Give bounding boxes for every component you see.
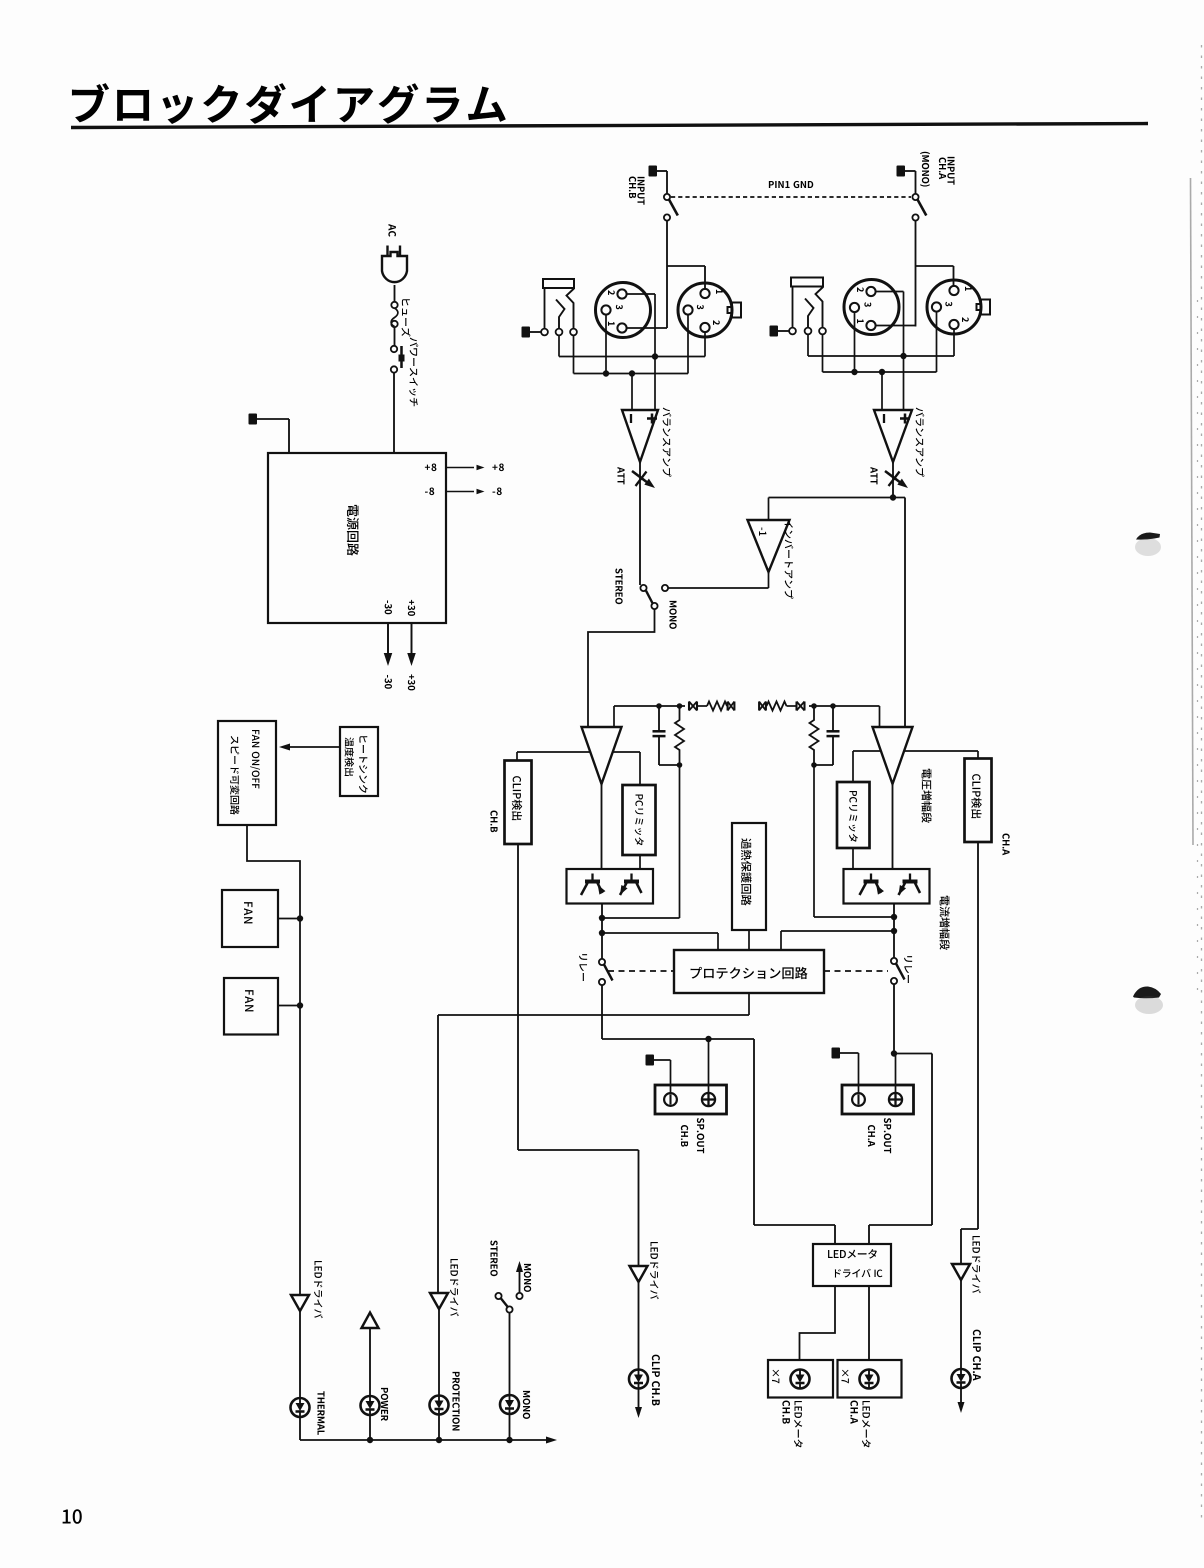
wire clip CH.B down <box>518 844 639 1266</box>
feedback shunt resistor CH.B <box>659 706 684 768</box>
XLR male CH.B <box>678 283 741 337</box>
feedback resistor CH.A <box>767 702 787 711</box>
XLR female CH.A pin2 <box>857 287 876 296</box>
balance amp CH.B <box>622 410 658 462</box>
pc limiter tap CH.B <box>613 752 640 785</box>
FAN 2 label <box>245 990 253 1011</box>
XLR female CH.B pin3 <box>601 305 622 315</box>
wire power bus <box>369 1415 371 1440</box>
clip diode pair CH.B <box>689 702 697 711</box>
scan blob 2 <box>1133 986 1163 1014</box>
clip tap CH.B <box>517 752 591 761</box>
heatsink box <box>340 727 378 796</box>
wire amp out CH.A <box>890 462 896 501</box>
-8 arrow <box>445 489 485 495</box>
+8 label outer <box>492 463 504 471</box>
wire CH.A <box>787 705 797 707</box>
XLR female CH.B pin2 <box>608 289 627 298</box>
SP.OUT box CH.B <box>655 1085 727 1114</box>
invert amp label <box>785 520 794 599</box>
feedback down wire CH.B <box>602 765 680 918</box>
ground psu <box>249 414 290 453</box>
wire male pin2 CH.A <box>953 329 955 356</box>
wire out CH.A <box>891 904 897 959</box>
transistor pair CH.B <box>581 874 642 896</box>
thermal protect box <box>732 823 766 930</box>
voltage amp CH.B <box>582 727 622 784</box>
wire protection out <box>438 993 749 1293</box>
wire fan control down <box>247 825 303 1295</box>
relay CH.B <box>599 959 613 985</box>
feedback down wire CH.A <box>814 765 894 917</box>
wire male pin3 CH.B <box>687 315 689 374</box>
wire bus1 CH.B <box>559 336 705 360</box>
ground spout CH.B <box>646 1055 671 1093</box>
cap end symbol CH.B <box>728 702 735 711</box>
wire fan1 <box>278 918 300 920</box>
CLIP CH.A label <box>973 1330 981 1381</box>
x7 label CH.A <box>842 1370 849 1383</box>
wire clip CH.A down <box>961 842 978 1264</box>
jack tip contact CH.A <box>816 287 826 334</box>
input CH.A label <box>920 152 954 187</box>
+8 label inner <box>425 463 437 471</box>
relay dashed CH.B <box>608 970 674 972</box>
wire relay to spout CH.A <box>891 984 932 1057</box>
wire to meter driver right <box>869 1054 932 1245</box>
wire bus2 CH.A <box>823 335 937 376</box>
wire driver to meter CH.A <box>868 1286 870 1360</box>
CH.A label <box>1002 834 1009 856</box>
LED driver triangle thermal <box>291 1295 309 1311</box>
heatsink label <box>345 736 368 793</box>
relay CH.A <box>891 958 905 984</box>
CLIP detect box CH.A <box>965 759 992 843</box>
wire to amp plus CH.B <box>654 357 656 411</box>
LED driver triangle protection <box>430 1293 448 1309</box>
jack ring contact CH.B <box>556 300 565 336</box>
LED meter CH.B label <box>782 1401 802 1448</box>
spout plus terminal CH.A <box>889 1093 902 1106</box>
attenuator CH.A <box>885 471 908 488</box>
wire switch to psu <box>393 373 395 453</box>
LED meter box CH.A <box>838 1360 902 1398</box>
wire female pin1 CH.A <box>876 325 916 327</box>
spout plus terminal CH.B <box>702 1093 715 1106</box>
feedback net CH.A <box>809 703 836 709</box>
FAN box 1 <box>222 890 278 947</box>
stereo-mono switch bottom <box>495 1293 522 1313</box>
XLR female CH.A pin1 <box>857 319 876 330</box>
power up arrow <box>362 1313 379 1329</box>
current stage label <box>940 896 950 950</box>
power switch label <box>409 338 418 407</box>
wire invert in <box>769 498 894 521</box>
PC limiter box CH.B <box>623 785 656 855</box>
power switch <box>391 346 405 373</box>
CLIP detect label CH.A <box>971 774 981 818</box>
POWER label <box>381 1388 388 1421</box>
CLIP detect label CH.B <box>512 776 522 820</box>
pc limiter tap CH.A <box>853 751 881 782</box>
scan blob 1 <box>1135 533 1161 557</box>
MONO label mid <box>669 601 676 629</box>
LED meter driver label <box>828 1249 882 1277</box>
attenuator CH.B <box>632 471 655 488</box>
page number 10 <box>63 1509 82 1524</box>
wire female pin3 CH.B <box>605 315 607 374</box>
wire female pin1 CH.B <box>627 327 667 329</box>
MONO arrow <box>516 1261 523 1293</box>
wire to voltage amp CH.A <box>893 498 905 728</box>
jack ring contact CH.A <box>805 299 814 335</box>
wire CH.A clip led <box>960 1280 962 1369</box>
ground jack CH.A <box>770 326 790 337</box>
wire CH.B clip led <box>638 1282 640 1370</box>
wire protection led <box>438 1309 440 1396</box>
LED meter box CH.B <box>768 1360 833 1398</box>
CLIP detect box CH.B <box>505 761 532 845</box>
PC limiter label CH.A <box>849 791 858 842</box>
XLR female CH.B pin1 <box>608 322 627 333</box>
+30 label inner <box>408 600 415 616</box>
wire male pin2 CH.B <box>704 332 706 356</box>
fuse label <box>401 299 410 336</box>
thermal protect label <box>741 838 752 905</box>
input CH.B label <box>629 177 645 205</box>
wire mono led <box>509 1313 511 1395</box>
psu box <box>268 453 446 623</box>
current amp box CH.A <box>844 869 930 904</box>
transistor pair CH.A <box>860 874 921 896</box>
LED clip CH.A <box>952 1369 971 1388</box>
ground jack CH.B <box>522 327 542 338</box>
PC limiter box CH.A <box>837 782 870 848</box>
fuse <box>391 302 398 346</box>
LED driver triangle CH.A <box>952 1264 970 1280</box>
wire thermal to protection <box>748 930 750 950</box>
wire female pin2 CH.A <box>876 292 904 357</box>
protection label <box>691 967 808 979</box>
relay label CH.B <box>579 954 587 981</box>
wire bus1 CH.A <box>808 335 954 360</box>
-8 label outer <box>492 487 501 495</box>
bottom bus <box>300 1437 557 1444</box>
psu label <box>347 505 359 556</box>
wire spout plus CH.A <box>895 1055 897 1092</box>
voltage amp CH.A <box>873 727 913 784</box>
title underline <box>71 124 1148 128</box>
XLR male CH.A <box>927 280 990 334</box>
-30 label outer <box>385 675 392 689</box>
XLR male CH.B pin1 <box>700 289 722 298</box>
wire to amp minus CH.A <box>881 372 883 410</box>
XLR female CH.A <box>844 280 899 335</box>
feedback resistor CH.B <box>707 702 727 711</box>
wire male pin3 CH.A <box>936 312 938 372</box>
protection box <box>674 950 824 993</box>
LED power <box>361 1396 380 1415</box>
XLR male CH.A pin1 <box>949 286 971 295</box>
SP.OUT CH.B label <box>681 1118 704 1153</box>
feedback cap CH.B <box>653 706 666 765</box>
wire pc to current amp CH.B <box>639 855 641 869</box>
jack tip contact CH.B <box>567 289 577 336</box>
relay label CH.A <box>904 956 912 983</box>
input switch CH.A <box>912 194 926 221</box>
wire protection bus <box>438 1415 440 1441</box>
XLR male CH.A pin2 <box>949 317 968 329</box>
feedback shunt resistor CH.A <box>810 706 834 768</box>
CH.B label <box>490 811 497 833</box>
input switch CH.B <box>664 194 678 221</box>
ATT label CH.A <box>871 467 878 484</box>
feedback cap CH.A <box>827 706 840 765</box>
LED meter CH.A label <box>850 1401 870 1448</box>
wire fan2 <box>278 1005 300 1007</box>
wire apex CH.B <box>601 784 603 869</box>
wire switch down CH.A <box>915 221 917 327</box>
SP.OUT CH.A label <box>868 1118 891 1153</box>
XLR female CH.A pin3 <box>850 302 871 312</box>
wire thermal bus <box>299 1417 301 1440</box>
LED mono <box>500 1395 519 1414</box>
LED driver thermal label <box>314 1261 323 1318</box>
wire protection in CH.A <box>781 931 894 950</box>
PC limiter label CH.B <box>635 794 644 845</box>
PIN1 GND label <box>769 181 813 188</box>
arrow clip CH.B <box>635 1389 642 1419</box>
ground input CH.B <box>649 166 668 195</box>
wire spout plus CH.B <box>708 1039 710 1092</box>
XLR male CH.B pin2 <box>700 320 719 332</box>
clip diode pair CH.A <box>797 702 805 711</box>
jack sleeve contact CH.B <box>541 329 548 336</box>
wire relay to spout CH.B <box>602 985 754 1042</box>
LED driver triangle CH.B <box>630 1266 648 1282</box>
wire female pin3 CH.A <box>854 312 856 372</box>
FAN 1 label <box>244 902 252 923</box>
ground spout CH.A <box>832 1048 859 1093</box>
wire to meter driver left <box>754 1039 835 1244</box>
MONO label top <box>524 1264 531 1292</box>
LED CH.B meter <box>791 1370 810 1389</box>
current amp box CH.B <box>567 869 654 904</box>
wire apex CH.A <box>892 784 894 869</box>
wire out CH.B <box>599 904 605 960</box>
balance amp CH.B label <box>663 408 672 477</box>
ATT label CH.B <box>618 467 625 484</box>
invert amp <box>748 520 790 572</box>
voltage stage label <box>922 769 932 823</box>
wire CH.B <box>697 705 707 707</box>
feedback net CH.B <box>656 703 685 709</box>
FAN control label <box>230 730 260 815</box>
clip tap CH.A <box>904 751 978 759</box>
STEREO label bottom <box>490 1240 497 1276</box>
wire bus2 CH.B <box>574 336 689 377</box>
+30 label outer <box>408 674 415 690</box>
cap end symbol CH.A <box>759 702 766 711</box>
wire plug to fuse <box>394 285 396 302</box>
+8 arrow <box>445 465 485 471</box>
balance amp CH.A <box>874 410 912 462</box>
arrow heatsink to fan <box>279 744 340 751</box>
feedback tap CH.B <box>614 706 659 727</box>
wire thermal led <box>299 1311 301 1398</box>
FAN box 2 <box>224 978 278 1035</box>
phone jack CH.A <box>791 278 823 328</box>
LED meter driver box <box>813 1244 891 1286</box>
LED protection <box>430 1396 449 1415</box>
relay dashed CH.A <box>824 970 888 972</box>
scan streak <box>1191 45 1202 1525</box>
title text <box>72 83 506 124</box>
AC label <box>388 224 396 237</box>
wire to male pin1 CH.B <box>667 266 705 288</box>
LED thermal <box>291 1398 310 1417</box>
+30 arrow <box>407 623 416 666</box>
feedback tap CH.A <box>833 706 880 727</box>
AC plug <box>382 246 407 283</box>
ground input CH.A <box>897 166 916 195</box>
-30 label inner <box>385 600 392 614</box>
jack sleeve contact CH.A <box>789 328 796 335</box>
LED driver CH.A label <box>972 1236 981 1293</box>
wire amp out CH.B <box>639 462 641 585</box>
STEREO label <box>615 568 622 604</box>
SP.OUT box CH.A <box>842 1085 914 1114</box>
wire female pin2 CH.B <box>627 294 655 357</box>
FAN control box <box>218 721 276 825</box>
PIN1 GND dashed wire <box>671 196 911 198</box>
wire mono link <box>668 572 768 588</box>
XLR female CH.B <box>596 283 651 338</box>
XLR male CH.B pin3 <box>683 305 703 315</box>
spout minus terminal CH.A <box>852 1093 865 1106</box>
wire switch down CH.B <box>666 221 668 329</box>
stereo-mono switch <box>640 585 668 609</box>
LED driver protection label <box>450 1259 459 1316</box>
balance amp CH.A label <box>916 408 925 477</box>
-30 arrow <box>384 623 393 666</box>
PROTECTION label <box>452 1372 459 1431</box>
wire driver to meter CH.B <box>800 1286 836 1360</box>
spout minus terminal CH.B <box>664 1093 677 1106</box>
LED driver CH.B label <box>650 1242 659 1299</box>
wire power led <box>369 1328 371 1396</box>
LED CH.A meter <box>860 1370 879 1389</box>
wire to amp plus CH.A <box>903 356 905 410</box>
-8 label inner <box>425 487 434 495</box>
wire to male pin1 CH.A <box>916 266 954 286</box>
x7 label CH.B <box>772 1370 779 1383</box>
wire protection in CH.B <box>602 933 718 950</box>
THERMAL label <box>318 1391 325 1435</box>
XLR male CH.A pin3 <box>932 302 952 312</box>
LED clip CH.B <box>629 1370 648 1389</box>
MONO label bottom <box>523 1391 530 1419</box>
CLIP CH.B label <box>652 1355 660 1406</box>
phone jack CH.B <box>543 279 574 328</box>
wire mono bus <box>509 1414 511 1440</box>
wire to amp minus CH.B <box>631 374 633 411</box>
wire pc to current amp CH.A <box>852 848 854 869</box>
wire switch to amp CH.B <box>588 609 655 727</box>
arrow clip CH.A <box>958 1388 965 1413</box>
